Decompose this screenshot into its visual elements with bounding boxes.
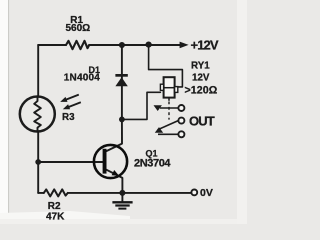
svg-text:1N4004: 1N4004 — [64, 73, 100, 84]
ground — [112, 202, 132, 208]
wire: bottom rail to 0V terminal — [68, 192, 192, 194]
wire: left rail upper — [37, 45, 39, 97]
svg-text:R2: R2 — [48, 201, 61, 212]
svg-text:OUT: OUT — [189, 114, 215, 129]
left white page margin — [0, 0, 8, 224]
relay coil RY1 — [160, 77, 177, 97]
wire: base lead from left rail to Q1 — [38, 161, 102, 163]
+12V supply arrow — [180, 42, 189, 49]
wire: relay feed from +12V junction — [149, 45, 183, 87]
svg-text:47K: 47K — [46, 212, 65, 223]
paper background — [0, 0, 247, 224]
svg-text:R3: R3 — [62, 112, 75, 123]
wire: collector node to relay left terminal — [122, 92, 160, 119]
wire: emitter lead of Q1 to bottom rail — [107, 170, 123, 193]
right lighter band — [237, 0, 247, 224]
svg-text:0V: 0V — [200, 187, 213, 199]
light arrow lower — [69, 102, 81, 107]
wire: left rail lower — [37, 131, 39, 193]
diode D1 — [115, 74, 127, 86]
relay contact: movable arm — [158, 118, 185, 130]
emitter arrowhead — [112, 170, 120, 176]
svg-text:2N3704: 2N3704 — [134, 157, 171, 169]
node: junction on top rail at diode — [119, 42, 125, 48]
photoresistor R3 — [20, 95, 81, 132]
light arrow upper — [66, 95, 79, 100]
relay contact: upper fixed contact — [154, 105, 185, 111]
resistor R2 — [44, 189, 68, 196]
svg-text:>120Ω: >120Ω — [185, 85, 218, 97]
node: junction on top rail at relay feed — [146, 42, 152, 48]
svg-text:RY1: RY1 — [191, 61, 210, 72]
node: base tap on left rail — [35, 159, 41, 165]
wire: top rail left segment — [38, 44, 66, 46]
bottom-left white margin — [0, 211, 130, 224]
svg-text:560Ω: 560Ω — [66, 23, 91, 34]
wire: top rail right segment — [89, 44, 181, 46]
node: collector node — [119, 117, 125, 123]
resistor R1 — [66, 41, 89, 49]
relay contact: lower fixed contact — [155, 127, 185, 137]
svg-text:12V: 12V — [192, 73, 210, 84]
wire: ground stub — [121, 193, 123, 202]
wire: diode branch vertical — [121, 45, 123, 119]
transistor Q1 — [94, 145, 127, 178]
node: emitter to ground rail — [119, 190, 125, 196]
wire: collector lead of Q1 — [107, 119, 122, 151]
terminal: 0V — [191, 190, 197, 196]
relay actuation dashed link — [168, 98, 170, 120]
wire: bottom rail left stub — [38, 192, 44, 194]
svg-text:+12V: +12V — [191, 37, 219, 52]
